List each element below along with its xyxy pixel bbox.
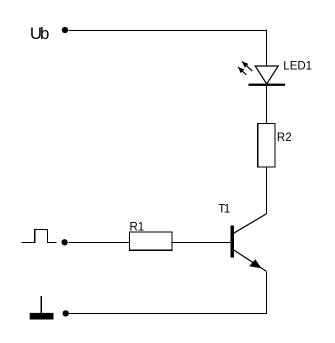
wire top vertical to LED1 anode (265, 30, 267, 66)
wire R2 to T1 collector (265, 167, 267, 214)
svg-text:1: 1 (224, 204, 230, 216)
wire bottom horizontal (69, 312, 267, 314)
wire LED1 cathode to R2 (265, 86, 267, 124)
T1 base bar (231, 226, 235, 258)
ground symbol bar (30, 313, 54, 320)
pulse input waveform symbol (22, 230, 57, 243)
LED1 emission arrow upper (242, 62, 252, 72)
resistor R2 body (258, 124, 275, 167)
LED LED1 triangle (255, 66, 278, 84)
resistor R1 body (130, 232, 172, 250)
wire input to R1 (68, 241, 129, 243)
terminal dot ground (63, 310, 69, 316)
svg-text:R1: R1 (130, 221, 145, 233)
svg-text:LED1: LED1 (283, 61, 312, 73)
LED1 emission arrow lower (238, 67, 246, 75)
wire T1 emitter down (265, 271, 267, 313)
wire R1 to T1 base (172, 241, 231, 243)
LED1 cathode bar (249, 84, 286, 86)
svg-text:Ub: Ub (30, 24, 50, 43)
T1 emitter arrowhead (249, 259, 261, 268)
terminal dot input (61, 239, 67, 245)
T1 emitter diagonal (234, 250, 267, 271)
svg-text:R2: R2 (277, 132, 292, 144)
T1 collector diagonal (234, 214, 267, 233)
label T1 (218, 204, 230, 216)
wire top horizontal (68, 29, 266, 31)
terminal dot Ub (62, 27, 68, 33)
ground symbol stem (40, 296, 42, 313)
